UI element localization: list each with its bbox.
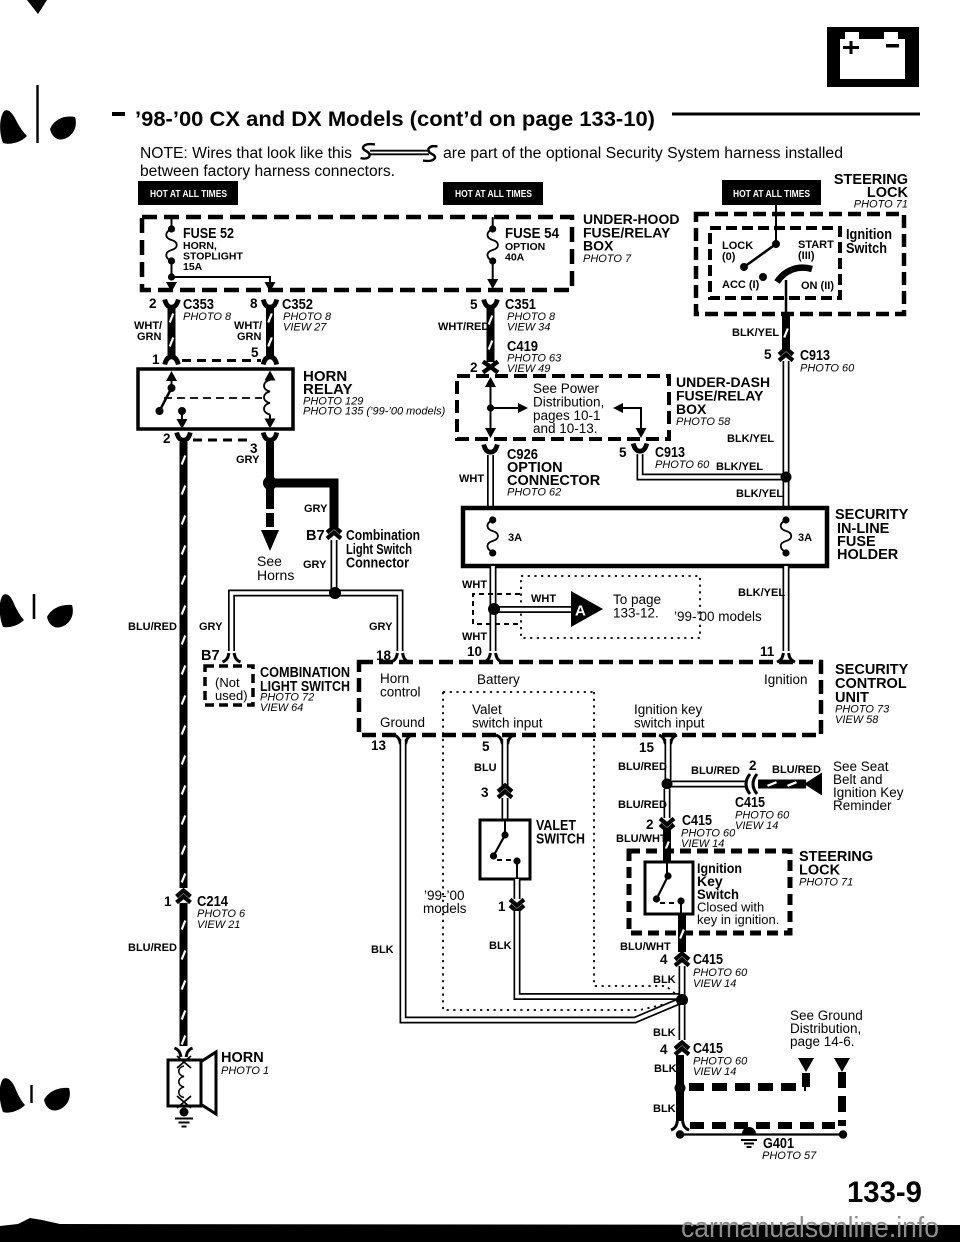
svg-text:NOTE: Wires that look like thi: NOTE: Wires that look like this [140, 145, 352, 162]
label Horn control [380, 671, 421, 700]
svg-text:1: 1 [498, 899, 506, 914]
connector pin 11 flare [777, 653, 795, 662]
wire into ignition switch [775, 205, 777, 243]
title rule line [672, 113, 920, 116]
svg-text:SWITCH: SWITCH [536, 832, 585, 848]
svg-text:PHOTO 57: PHOTO 57 [762, 1150, 817, 1162]
under-dash left wire with arrows [485, 377, 496, 438]
svg-text:BLU/RED: BLU/RED [618, 761, 667, 773]
connector C415 a [675, 954, 689, 966]
svg-text:BLU/RED: BLU/RED [128, 942, 177, 954]
wire GRY B7 to junction [331, 540, 338, 590]
svg-text:Reminder: Reminder [833, 798, 892, 813]
label Ignition Switch [846, 227, 892, 257]
svg-text:WHT: WHT [462, 579, 487, 591]
horn ground [175, 1108, 193, 1127]
horn relay dashed actuator line [164, 397, 262, 399]
svg-text:HOT AT ALL TIMES: HOT AT ALL TIMES [150, 188, 227, 200]
svg-text:10: 10 [467, 644, 482, 659]
connector B7 (not used) [223, 653, 241, 662]
wire C353 (WHT/GRN) [168, 306, 176, 358]
svg-text:BLK: BLK [489, 940, 512, 952]
wire horizontal inside fuse box [172, 277, 271, 282]
label WHT/GRN left [134, 320, 162, 343]
svg-text:HOLDER: HOLDER [837, 547, 899, 563]
wire GRY thick to B7 connector [270, 483, 334, 527]
horn connector flare [175, 1048, 193, 1057]
ground symbol G401 [741, 1127, 757, 1147]
horn speaker cone [202, 1052, 216, 1114]
wire BLU/WHT into steering lock [663, 830, 671, 863]
label Ignition Key Switch Closed with key in ignition. [697, 860, 779, 927]
valet switch internals [490, 820, 521, 879]
connector C214 [177, 891, 191, 903]
label 99-00 models left [423, 888, 467, 916]
junction BLK/YEL [781, 472, 792, 483]
svg-text:5: 5 [482, 739, 490, 754]
ground rail flare [671, 1121, 689, 1130]
dashed link C353-C352 bottom [182, 359, 261, 362]
valet switch box [480, 820, 530, 879]
wire fuse52 to bottom junction [171, 261, 173, 277]
arrow to C352 [265, 282, 276, 292]
wire GRY right branch [335, 593, 400, 651]
svg-text:Connector: Connector [346, 556, 409, 572]
label Combination Light Switch Connector [346, 528, 420, 572]
label OPTION 40A [505, 241, 545, 264]
thick dashed ground rail [690, 1122, 835, 1129]
label C913 / PHOTO 60 underdash [655, 445, 710, 471]
label HORN RELAY / PHOTO 129 / PHOTO 135 [303, 368, 446, 418]
svg-text:PHOTO 62: PHOTO 62 [507, 487, 561, 499]
wire BLU/RED relay pin2 down to C214 [180, 442, 188, 888]
junction BLK ground distribution [675, 1083, 686, 1094]
svg-text:are part of the optional Secur: are part of the optional Security System… [443, 145, 843, 162]
horn body box [168, 1060, 201, 1106]
svg-text:BOX: BOX [676, 401, 707, 417]
svg-text:GRN: GRN [137, 331, 162, 343]
ignition key switch internals [653, 862, 685, 914]
label UNDER-DASH FUSE/RELAY BOX / PHOTO 58 [676, 374, 770, 428]
svg-text:GRY: GRY [369, 621, 393, 633]
horn relay coil [264, 371, 276, 429]
svg-text:PHOTO 60: PHOTO 60 [800, 363, 855, 375]
horn coil + crosses [177, 1056, 191, 1108]
label STEERING LOCK / PHOTO 71 bottom [799, 849, 873, 889]
svg-text:4: 4 [660, 952, 668, 967]
ignition switch pivot node [772, 240, 780, 248]
scan artifact blob set 1 left wedge [0, 110, 27, 144]
svg-text:PHOTO 58: PHOTO 58 [676, 416, 731, 428]
svg-text:2: 2 [470, 360, 478, 375]
wire C352 (WHT/GRN) [266, 306, 274, 358]
wire C351 (WHT/RED) [487, 306, 495, 362]
wire BLU valet upper [502, 739, 509, 786]
svg-text:(0): (0) [722, 251, 736, 263]
HOT AT ALL TIMES box 3 [722, 180, 821, 205]
under-dash right arrow path [613, 403, 647, 438]
fuse 54 wire stub [492, 217, 494, 228]
label C353 / PHOTO 8 [183, 297, 232, 323]
label See Seat Belt and Ignition Key Reminder [833, 759, 904, 813]
svg-text:Horns: Horns [257, 567, 294, 583]
label C415 b / PHOTO 60 / VIEW 14 [693, 1041, 748, 1078]
label C926 OPTION CONNECTOR / PHOTO 62 [507, 447, 601, 499]
label C415 steering / PHOTO 60 / VIEW 14 [681, 813, 736, 850]
svg-text:15A: 15A [183, 261, 203, 273]
under-dash node [487, 404, 494, 411]
battery symbol [827, 27, 919, 87]
connector C352 bottom [263, 357, 277, 365]
connector pin 10 flare [484, 653, 502, 662]
svg-text:PHOTO 135 (’99-’00 models): PHOTO 135 (’99-’00 models) [303, 406, 446, 418]
wire BLK/YEL C913 to junction [640, 454, 784, 477]
connector pin 15 flare [659, 735, 677, 744]
svg-text:BLK: BLK [654, 1063, 677, 1075]
label C214 / PHOTO 6 / VIEW 21 [197, 894, 246, 931]
connector pin 5 flare [496, 735, 514, 744]
svg-text:used): used) [215, 688, 248, 703]
HOT AT ALL TIMES box 1 [138, 181, 238, 205]
label Valet switch input [472, 702, 543, 731]
junction GRY 2 [329, 587, 341, 599]
label See Ground Distribution page 14-6 [790, 1008, 863, 1049]
wire BLK junction to ground rail [676, 1092, 684, 1121]
svg-text:BLU: BLU [474, 762, 497, 774]
svg-text:1: 1 [164, 894, 172, 909]
wire valet switch down [514, 879, 521, 899]
connector C913 underdash [633, 444, 647, 452]
label See Power Distribution pages [533, 381, 604, 436]
svg-text:VIEW 21: VIEW 21 [197, 919, 240, 931]
junction BLU/RED [662, 779, 673, 790]
thick dashed wire from arrow 2 down [838, 1072, 846, 1126]
scan artifact blob set 2 crescent [47, 605, 73, 628]
label C415 a / PHOTO 60 / VIEW 14 [693, 952, 748, 990]
svg-text:15: 15 [639, 740, 655, 755]
svg-text:BLU/RED: BLU/RED [618, 799, 667, 811]
wire BLK/YEL C913 down to fuse holder [783, 361, 790, 508]
label STEERING LOCK / PHOTO 71 [834, 172, 909, 211]
arrow to seat belt reminder [804, 773, 822, 796]
label (Not used) [215, 675, 248, 703]
svg-text:switch input: switch input [472, 716, 543, 731]
scan artifact blob set 3 tick [30, 1085, 32, 1103]
svg-text:4: 4 [660, 1042, 668, 1057]
svg-text:VIEW 14: VIEW 14 [693, 978, 736, 990]
horn relay box [138, 369, 293, 429]
connector C415 seatbelt half [746, 774, 757, 794]
svg-text:BLK/YEL: BLK/YEL [736, 488, 783, 500]
wire BLK junction down [679, 1005, 686, 1040]
label C415 seatbelt / PHOTO 60 / VIEW 14 [735, 795, 790, 832]
wire thick seatbelt [758, 780, 806, 789]
svg-text:3: 3 [481, 785, 489, 800]
label See Horns [257, 553, 294, 583]
svg-text:(III): (III) [798, 250, 815, 262]
svg-text:133-12.: 133-12. [613, 606, 659, 621]
wire BLK ground pin13 [403, 739, 680, 1020]
svg-text:B7: B7 [201, 648, 220, 664]
wire WHT C926 to fuse holder [487, 455, 494, 508]
label LOCK (0) [722, 240, 753, 263]
connector C415 steering [660, 819, 674, 831]
dotted box 99-00 A [521, 576, 700, 638]
svg-text:page 14-6.: page 14-6. [790, 1034, 855, 1049]
svg-text:PHOTO 1: PHOTO 1 [221, 1065, 269, 1077]
svg-text:133-9: 133-9 [847, 1176, 922, 1209]
wire BLK valet down to junction [517, 911, 680, 997]
svg-text:40A: 40A [505, 252, 525, 264]
svg-text:5: 5 [251, 345, 259, 360]
svg-text:switch input: switch input [634, 716, 705, 731]
scan artifact blob set 2 tick [33, 594, 36, 619]
svg-text:between factory harness connec: between factory harness connectors. [140, 163, 395, 180]
svg-text:GRY: GRY [303, 559, 327, 571]
wire GRY relay pin3 down [266, 442, 274, 480]
label C352 / PHOTO 8 / VIEW 27 [282, 297, 332, 334]
wire WHT to A arrow [498, 606, 571, 613]
steering lock box (dashed) [629, 851, 790, 933]
svg-text:GRY: GRY [199, 621, 223, 633]
connector C353 bottom [165, 357, 179, 365]
horn relay input arrow [166, 371, 177, 388]
svg-text:HOT AT ALL TIMES: HOT AT ALL TIMES [455, 188, 532, 200]
wire GRY left branch [232, 593, 336, 651]
ignition switch lever to LOCK [744, 244, 776, 267]
under-dash arrow right [491, 403, 529, 413]
svg-text:Ignition: Ignition [764, 672, 808, 687]
wire BLK C415b down [676, 1055, 684, 1085]
arrow see horns [261, 530, 279, 551]
svg-text:and 10-13.: and 10-13. [533, 421, 598, 436]
label Ignition key switch input [634, 702, 705, 731]
svg-text:FUSE 54: FUSE 54 [505, 226, 559, 242]
connector C913 main [779, 349, 793, 361]
svg-text:carmanualsonline.info: carmanualsonline.info [681, 1212, 939, 1242]
svg-text:control: control [380, 685, 421, 700]
svg-text:BLK: BLK [653, 1027, 676, 1039]
wire ignition switch output [785, 280, 788, 316]
label COMBINATION LIGHT SWITCH / PHOTO 72 / VIEW 64 [260, 665, 350, 714]
svg-text:GRY: GRY [236, 454, 260, 466]
arrow to C351 [487, 279, 498, 289]
svg-text:BLU/RED: BLU/RED [128, 621, 177, 633]
svg-text:BLK/YEL: BLK/YEL [727, 433, 774, 445]
svg-text:2: 2 [149, 296, 157, 311]
svg-text:WHT/RED: WHT/RED [438, 321, 489, 333]
horn relay switch pivot [168, 384, 176, 392]
connector relay pin2 [177, 433, 191, 441]
svg-text:8: 8 [250, 296, 258, 311]
small dashed box around WHT junction [473, 594, 520, 624]
svg-text:13: 13 [371, 738, 387, 753]
fuse FUSE 52 [166, 225, 177, 264]
ignition switch inner box (dashed) [710, 228, 840, 298]
connector relay pin3 [263, 433, 277, 441]
svg-text:BLK: BLK [653, 1103, 676, 1115]
junction BLK [676, 994, 688, 1006]
ignition switch outer box (dashed) [696, 214, 904, 314]
svg-text:1: 1 [152, 352, 160, 367]
svg-text:BLK: BLK [653, 974, 676, 986]
scan artifact blob set 1 tick [36, 85, 38, 143]
svg-text:WHT: WHT [459, 473, 484, 485]
svg-text:3A: 3A [798, 532, 812, 544]
fuse 3A left [487, 516, 498, 556]
svg-text:VIEW 27: VIEW 27 [283, 322, 327, 334]
wire valet connector to switch [502, 798, 509, 820]
scan artifact blob set 2 wedge [0, 594, 24, 627]
connector C415 b [675, 1043, 689, 1055]
wire BLU/RED to C415 seat belt [671, 781, 745, 788]
svg-text:PHOTO 71: PHOTO 71 [854, 199, 908, 211]
svg-text:HORN: HORN [221, 1050, 264, 1066]
svg-text:BLK/YEL: BLK/YEL [738, 587, 785, 599]
label HORN / PHOTO 1 [221, 1050, 269, 1077]
dotted line valet region right [594, 692, 678, 996]
label C913 / PHOTO 60 main [800, 348, 855, 375]
ON contact arc [777, 268, 812, 282]
title dash [112, 112, 125, 116]
connector C352 top [263, 300, 277, 308]
scan artifact blob set 3 crescent [44, 1088, 70, 1111]
connector pin 13 flare [394, 735, 412, 744]
svg-text:BLK/YEL: BLK/YEL [732, 327, 779, 339]
label SECURITY CONTROL UNIT / PHOTO 73 / VIEW 58 [835, 662, 909, 726]
dotted line valet region top [443, 691, 594, 693]
svg-text:A: A [575, 603, 586, 620]
svg-text:VIEW 49: VIEW 49 [507, 363, 550, 375]
svg-text:HOT AT ALL TIMES: HOT AT ALL TIMES [733, 188, 810, 200]
wire fuse54 down [492, 261, 494, 279]
svg-text:11: 11 [760, 644, 775, 659]
ignition key switch box [645, 862, 693, 914]
junction WHT [488, 603, 500, 615]
pin 3 label + GRY [236, 441, 260, 466]
svg-text:BLU/WHT: BLU/WHT [616, 833, 667, 845]
label UNDER-HOOD FUSE/RELAY BOX [583, 211, 679, 265]
svg-text:PHOTO 60: PHOTO 60 [655, 459, 710, 471]
svg-text:PHOTO 8: PHOTO 8 [183, 311, 232, 323]
svg-text:VIEW 58: VIEW 58 [835, 714, 879, 726]
label C351 / PHOTO 8 / VIEW 34 [505, 297, 556, 334]
svg-text:’98-’00 CX and DX Models (cont: ’98-’00 CX and DX Models (cont’d on page… [135, 108, 655, 131]
label WHT/GRN 2 [234, 320, 262, 343]
svg-text:BLU/RED: BLU/RED [691, 765, 740, 777]
svg-text:BLK/YEL: BLK/YEL [716, 461, 763, 473]
svg-text:GRY: GRY [304, 503, 328, 515]
scan artifact blob set 3 wedge [0, 1078, 25, 1112]
label START (III) [798, 239, 834, 262]
label G401 / PHOTO 57 [762, 1136, 817, 1162]
svg-text:VIEW 14: VIEW 14 [681, 838, 724, 850]
scan artifact blob set 1 crescent [50, 117, 76, 140]
bottom black bar [0, 1218, 960, 1242]
ground distribution arrow 1 [798, 1058, 814, 1072]
svg-text:C415: C415 [693, 952, 723, 968]
off-page arrow A [571, 591, 603, 627]
wire BLK/YEL fuse holder to SCU pin 11 [783, 566, 790, 651]
fuse 52 wire stub [171, 217, 173, 228]
connector C419 [483, 362, 498, 373]
wire BLK/YEL ignition switch down [782, 314, 790, 350]
svg-text:’99-’00 models: ’99-’00 models [674, 609, 762, 624]
label To page 133-12. [613, 592, 661, 621]
svg-text:5: 5 [764, 347, 772, 362]
svg-text:BLK: BLK [371, 944, 394, 956]
svg-text:3A: 3A [508, 532, 522, 544]
fuse 3A right [781, 516, 792, 556]
svg-text:Ground: Ground [380, 715, 425, 730]
label HORN, STOPLIGHT 15A [183, 240, 243, 273]
svg-text:2: 2 [749, 758, 757, 773]
svg-text:VIEW 14: VIEW 14 [735, 820, 778, 832]
svg-text:5: 5 [619, 445, 627, 460]
svg-text:GRN: GRN [237, 331, 262, 343]
ACC contact node [759, 273, 767, 281]
label SECURITY IN-LINE FUSE HOLDER [835, 507, 909, 563]
svg-text:ACC (I): ACC (I) [722, 279, 760, 291]
wire BLU/RED junction down [664, 789, 671, 818]
svg-text:VIEW 34: VIEW 34 [507, 322, 550, 334]
svg-text:key in ignition.: key in ignition. [697, 912, 779, 927]
svg-text:5: 5 [470, 297, 478, 312]
connector valet 3 [498, 786, 512, 798]
arrow to C353 [166, 282, 177, 292]
connector C353 top [165, 300, 179, 308]
horn relay lever [160, 388, 172, 410]
fuse FUSE 54 [487, 225, 498, 264]
connector C926 [484, 445, 498, 453]
svg-text:Switch: Switch [846, 241, 887, 257]
svg-text:B7: B7 [306, 528, 325, 544]
svg-text:WHT: WHT [462, 631, 487, 643]
connector B7 combination light switch [327, 527, 341, 539]
svg-text:models: models [423, 901, 467, 916]
junction GRY [263, 476, 277, 490]
svg-text:2: 2 [163, 431, 171, 446]
svg-text:VIEW 64: VIEW 64 [260, 702, 303, 714]
svg-text:WHT: WHT [531, 593, 556, 605]
horn relay contact right + arrow [177, 407, 188, 429]
connector valet 1 [510, 900, 524, 912]
wire BLU/RED C214 to horn [180, 903, 188, 1046]
svg-text:VIEW 14: VIEW 14 [693, 1066, 736, 1078]
wire BLK C415a to junction [679, 966, 686, 996]
label C419 / PHOTO 63 / VIEW 49 [507, 339, 562, 375]
connector C351 [484, 300, 498, 308]
security control unit box (dashed) [359, 662, 821, 735]
svg-text:BOX: BOX [583, 238, 614, 254]
thick dashed wire to ground arrow 1 [689, 1073, 806, 1087]
NOTE wire-style symbol [361, 144, 438, 161]
svg-text:2: 2 [646, 817, 654, 832]
label VALET SWITCH [536, 818, 585, 848]
wire WHT fuse holder to SCU pin 10 [490, 566, 497, 651]
svg-text:Battery: Battery [477, 672, 520, 687]
LOCK contact node [740, 263, 748, 271]
wire BLU/RED pin15 down [665, 739, 672, 780]
security in-line fuse holder box [463, 508, 827, 566]
svg-text:PHOTO 7: PHOTO 7 [583, 253, 632, 265]
dotted line valet region left [443, 692, 678, 1010]
wire BLU/WHT out of steering lock [678, 914, 686, 952]
svg-text:BLU/RED: BLU/RED [772, 764, 821, 776]
combination light switch box (dashed) [205, 666, 253, 705]
dashed link below relay [193, 439, 250, 442]
svg-text:PHOTO 71: PHOTO 71 [799, 877, 853, 889]
